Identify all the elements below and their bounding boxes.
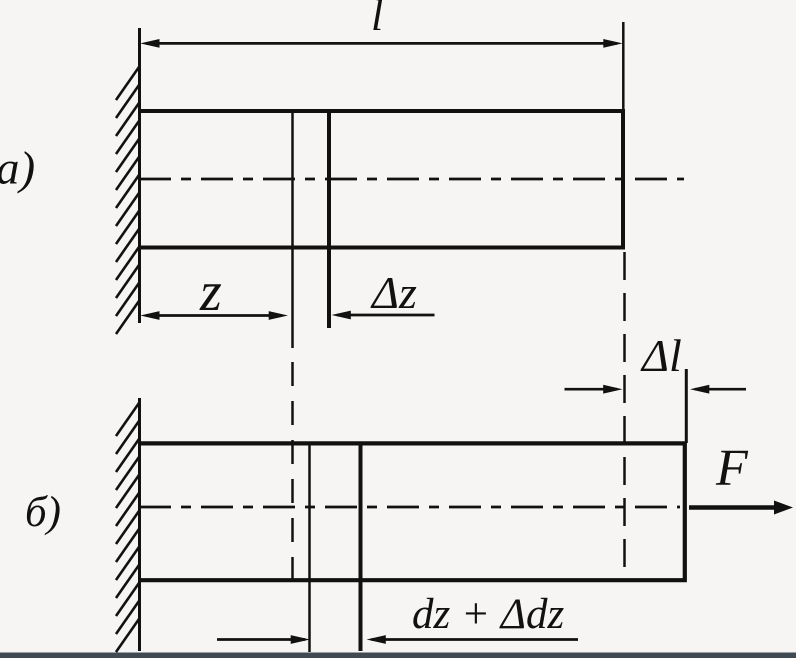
svg-text:б): б) — [25, 489, 61, 536]
svg-text:Δz: Δz — [370, 267, 417, 318]
svg-text:а): а) — [0, 143, 35, 195]
svg-text:dz + Δdz: dz + Δdz — [412, 591, 564, 638]
dimension line z — [146, 314, 282, 317]
force arrow F — [689, 505, 778, 510]
bottom dimension line right segment — [372, 638, 579, 641]
thick section line a — [327, 111, 331, 328]
thin section line a — [291, 111, 294, 348]
arrowhead z right — [269, 311, 288, 320]
extension line l right — [622, 22, 625, 109]
arrowhead F — [774, 501, 793, 515]
dimension line dz (Δz) — [337, 314, 435, 317]
dimension line dl left segment — [565, 388, 618, 391]
bottom dimension line left segment — [217, 638, 305, 641]
arrowhead l right — [603, 39, 622, 48]
dashed projection line from thin section a — [291, 362, 294, 579]
svg-text:l: l — [371, 0, 383, 40]
arrowhead bottom pointing right — [291, 635, 310, 644]
svg-text:F: F — [715, 440, 749, 497]
arrowhead bottom pointing left — [367, 635, 386, 644]
arrowhead dl pointing right — [603, 385, 622, 394]
centerline a (dash-dot) — [139, 178, 684, 181]
arrowhead z left — [140, 311, 159, 320]
extension line dl (Δl) — [685, 369, 688, 443]
dimension line l — [146, 42, 617, 45]
bottom strip — [0, 653, 796, 658]
wall line a — [138, 28, 141, 323]
dimension line dl right segment — [695, 388, 746, 391]
wall hatching a — [116, 67, 139, 334]
arrowhead l left — [140, 39, 159, 48]
svg-text:Δl: Δl — [640, 330, 682, 381]
thin section line b — [308, 444, 311, 653]
dashed projection line from bar a right edge — [623, 252, 626, 579]
wall hatching b — [116, 403, 139, 652]
thick section line b — [359, 444, 363, 652]
arrowhead dl pointing left — [690, 385, 709, 394]
bar a outline — [139, 111, 623, 248]
arrowhead dz left — [332, 311, 351, 320]
bar b outline — [139, 443, 685, 580]
centerline b (dash-dot) — [139, 506, 680, 509]
svg-text:z: z — [199, 261, 222, 323]
wall line b — [138, 398, 141, 651]
